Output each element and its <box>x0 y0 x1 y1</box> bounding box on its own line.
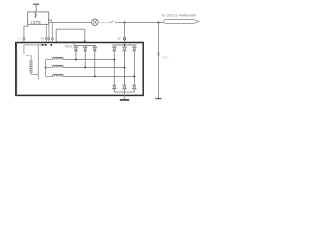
svg-text:1STB: 1STB <box>31 20 41 24</box>
svg-text:To 2ED1 4WBHIW: To 2ED1 4WBHIW <box>161 13 196 17</box>
svg-text:D-: D- <box>18 36 21 40</box>
svg-text:D+: D+ <box>41 37 45 41</box>
svg-text:B+: B+ <box>118 37 122 41</box>
svg-text:701A: 701A <box>64 44 73 48</box>
svg-text:+12V: +12V <box>161 56 170 60</box>
